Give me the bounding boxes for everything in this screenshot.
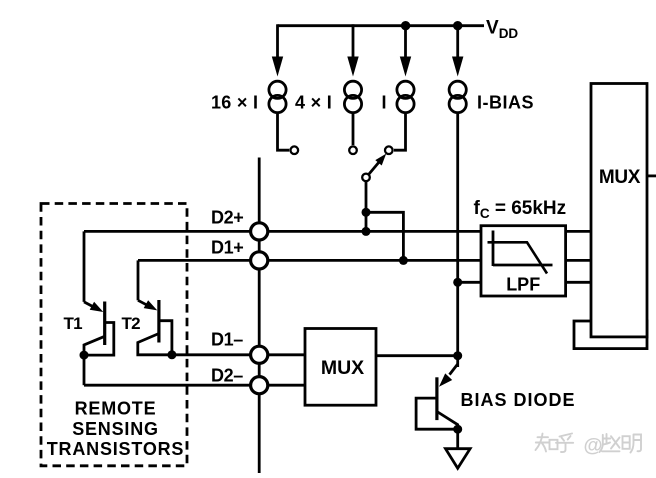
wire D1+ row [138, 259, 481, 262]
T2 base bar [157, 300, 160, 343]
transistor T1 [80, 231, 114, 385]
wire T2 emitter riser [137, 260, 140, 300]
wire MUX output right [647, 174, 656, 177]
wire I-BIAS row to LPF [458, 281, 481, 284]
node dot on VDD rail at x=457.7 [453, 21, 462, 30]
svg-text:I: I [382, 93, 387, 113]
wire VDD rail [278, 24, 485, 27]
node dot I-BIAS to LPF (457.7,282.3) [453, 278, 462, 287]
wire main bus vertical [258, 158, 261, 474]
T1 base bar [103, 302, 106, 346]
wire I-BIAS line into emitter [450, 364, 458, 375]
switch contact I [385, 146, 393, 154]
watermark zhihu [536, 434, 574, 453]
switch contact 4xI [349, 146, 357, 154]
svg-text:16 × I: 16 × I [211, 93, 258, 113]
svg-text:I-BIAS: I-BIAS [477, 92, 534, 112]
wire T1 emitter riser [83, 231, 86, 302]
T1 emitter diagonal with arrow [84, 302, 93, 307]
switch wiper arrow [369, 162, 380, 175]
transistor T2 [138, 260, 177, 359]
svg-text:LPF: LPF [506, 274, 540, 294]
svg-text:@: @ [584, 434, 603, 456]
arrow into current source 16xI [276, 24, 279, 58]
wire branch from node A to D1+ row [366, 212, 403, 261]
bias diode transistor [416, 364, 462, 434]
wire D2- row [84, 384, 305, 387]
svg-text:T1: T1 [64, 314, 83, 333]
bias diode junction dot [453, 425, 462, 434]
svg-text:D2–: D2– [211, 366, 243, 386]
current source I [397, 81, 414, 98]
wire D1- row [172, 353, 305, 356]
current source 4xI [344, 81, 361, 98]
wire LPF to MUX row 2 [566, 259, 591, 262]
hanzi zhao [600, 434, 620, 452]
hanzi ming [623, 435, 642, 453]
arrow into current source I [404, 24, 407, 58]
current source I-BIAS [449, 81, 466, 98]
current source 16xI [269, 81, 286, 98]
svg-text:TRANSISTORS: TRANSISTORS [47, 439, 184, 459]
T2 emitter diagonal with arrow [138, 300, 147, 305]
bias diode base bar [435, 377, 438, 420]
bias diode collector [437, 412, 458, 430]
T2 collector [138, 334, 172, 355]
node dot A (366,212.3) [362, 208, 371, 217]
wire left MUX to I-BIAS line [376, 354, 458, 357]
arrow into current source I-BIAS [456, 24, 459, 58]
svg-text:BIAS DIODE: BIAS DIODE [461, 390, 576, 410]
svg-text:VDD: VDD [486, 18, 518, 42]
MUX block left [305, 329, 376, 406]
svg-text:D1+: D1+ [211, 237, 243, 257]
block behind right MUX [574, 321, 647, 349]
wire to ground [456, 429, 459, 449]
arrow into current source 4xI [352, 24, 355, 58]
wire 4xI source to switch contact [352, 114, 355, 146]
node dot (457.7,355.7) [453, 351, 462, 360]
svg-text:MUX: MUX [321, 357, 364, 379]
svg-text:T2: T2 [122, 314, 141, 333]
svg-text:MUX: MUX [599, 167, 641, 188]
wire D2+ row [84, 230, 481, 233]
node circle D1+ [251, 252, 268, 269]
wire switch common down [365, 182, 368, 232]
bias diode base tap [416, 398, 458, 429]
svg-text:fC = 65kHz: fC = 65kHz [474, 198, 567, 221]
T1 junction dot [80, 351, 89, 360]
wire 16xI source to switch contact [278, 114, 290, 151]
node circle D1- [251, 346, 268, 363]
T2 base tap [159, 321, 172, 355]
T1 collector [84, 336, 105, 355]
wire T1 dot to D2- row [83, 355, 86, 385]
node circle D2- [251, 377, 268, 394]
dashed box remote sensing transistors [41, 204, 187, 466]
wire LPF to MUX row 3 [566, 281, 591, 284]
switch contact 16xI [291, 146, 299, 154]
wire I-BIAS vertical line [456, 114, 459, 367]
hanzi zhi [536, 434, 549, 452]
MUX block right [591, 84, 647, 337]
wire I source to switch contact [394, 114, 406, 151]
hanzi hu [556, 434, 573, 453]
switch wiper pole [362, 174, 370, 182]
svg-text:D2+: D2+ [211, 207, 243, 227]
svg-text:REMOTE: REMOTE [75, 399, 157, 419]
node circle D2+ [251, 223, 268, 240]
LPF curve axes [492, 231, 495, 267]
node dot on D2+ row (366,231.4) [362, 227, 371, 236]
svg-text:D1–: D1– [211, 330, 243, 350]
LPF block [481, 226, 566, 296]
T2 junction dot [167, 350, 176, 359]
node dot on D1+ row (403.4,260.4) [399, 256, 408, 265]
svg-text:SENSING: SENSING [72, 419, 159, 439]
T1 base tap [84, 323, 114, 356]
ground symbol [446, 449, 471, 469]
node dot on VDD rail at x=405.6 [401, 21, 410, 30]
LPF response curve [488, 242, 548, 273]
wire LPF to MUX row 1 [566, 230, 591, 233]
svg-text:4 × I: 4 × I [295, 93, 332, 113]
